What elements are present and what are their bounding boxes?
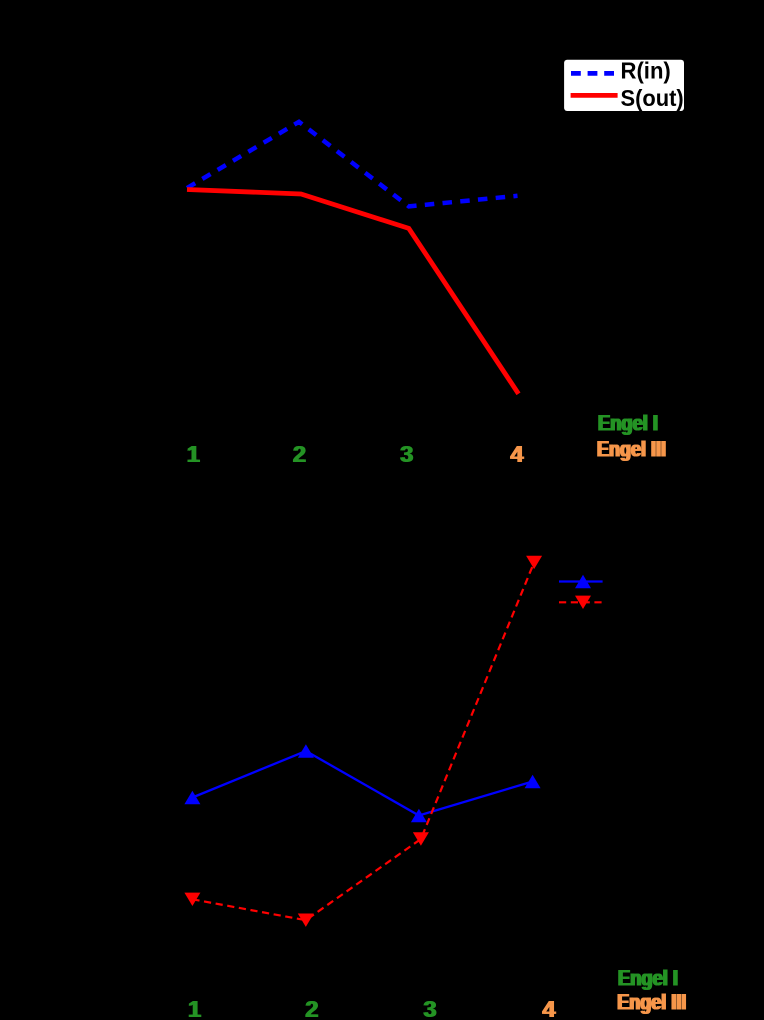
svg-text:3: 3 xyxy=(424,996,437,1020)
svg-text:Engel III: Engel III xyxy=(618,990,687,1015)
svg-text:2: 2 xyxy=(306,996,319,1020)
svg-text:Engel I: Engel I xyxy=(619,966,679,991)
svg-text:4: 4 xyxy=(543,996,556,1020)
svg-text:1: 1 xyxy=(189,996,202,1020)
svg-text:1: 1 xyxy=(188,441,201,467)
svg-text:S(out): S(out) xyxy=(621,85,684,111)
svg-text:Engel III: Engel III xyxy=(598,437,667,462)
svg-text:Engel I: Engel I xyxy=(599,411,659,436)
svg-text:3: 3 xyxy=(401,441,414,467)
svg-text:4: 4 xyxy=(511,441,524,467)
svg-text:2: 2 xyxy=(294,441,307,467)
svg-text:R(in): R(in) xyxy=(621,58,671,84)
